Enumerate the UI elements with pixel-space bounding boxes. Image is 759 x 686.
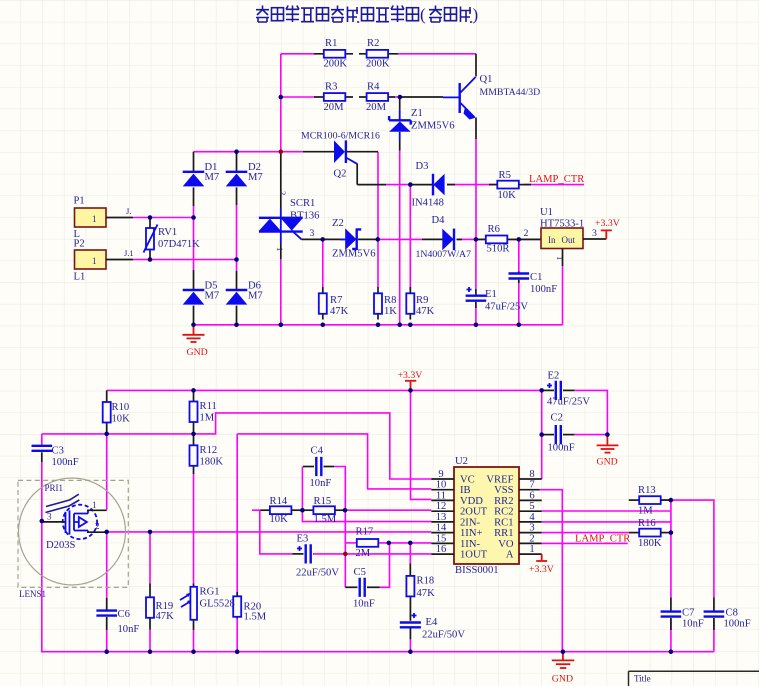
svg-text:180K: 180K [200, 457, 224, 468]
svg-text:2IN-: 2IN- [460, 517, 480, 528]
svg-text:J.: J. [126, 206, 131, 216]
svg-text:R18: R18 [417, 576, 435, 587]
svg-text:A: A [506, 550, 514, 561]
svg-text:MCR100-6/MCR16: MCR100-6/MCR16 [301, 131, 380, 142]
svg-text:C6: C6 [118, 609, 130, 620]
svg-text:1: 1 [529, 544, 534, 555]
svg-text:J.1: J.1 [124, 248, 134, 258]
svg-text:BISS0001: BISS0001 [455, 565, 499, 576]
svg-text:IN4148: IN4148 [412, 198, 444, 209]
svg-text:E4: E4 [426, 617, 438, 628]
svg-text:22uF/50V: 22uF/50V [422, 630, 465, 641]
svg-text:R10: R10 [112, 402, 130, 413]
svg-text:RR1: RR1 [494, 528, 513, 539]
svg-text:D3: D3 [416, 161, 429, 172]
svg-text:2OUT: 2OUT [460, 507, 488, 518]
svg-text:RC1: RC1 [494, 517, 513, 528]
svg-text:10K: 10K [112, 414, 131, 425]
svg-text:1M: 1M [200, 413, 215, 424]
svg-text:LAMP_CTR: LAMP_CTR [529, 174, 585, 185]
svg-text:VSS: VSS [494, 485, 514, 496]
svg-text:13: 13 [436, 512, 447, 523]
svg-text:D203S: D203S [46, 540, 76, 551]
svg-text:D4: D4 [432, 215, 446, 226]
svg-text:C8: C8 [726, 608, 738, 619]
svg-text:VDD: VDD [460, 496, 483, 507]
svg-text:1OUT: 1OUT [460, 550, 488, 561]
svg-text:M7: M7 [205, 291, 220, 302]
svg-text:47K: 47K [417, 588, 436, 599]
svg-text:47K: 47K [330, 306, 349, 317]
svg-text:200K: 200K [324, 59, 348, 70]
svg-text:RR2: RR2 [494, 496, 513, 507]
svg-text:20M: 20M [324, 102, 345, 113]
svg-text:1: 1 [92, 214, 97, 224]
svg-text:Q2: Q2 [334, 169, 347, 180]
svg-text:7: 7 [529, 480, 534, 491]
svg-text:ZMM5V6: ZMM5V6 [411, 121, 455, 132]
svg-text:14: 14 [436, 523, 447, 534]
svg-text:16: 16 [436, 544, 447, 555]
svg-text:R5: R5 [499, 170, 511, 181]
svg-text:100nF: 100nF [52, 457, 79, 468]
svg-text:GND: GND [552, 674, 573, 685]
svg-text:100nF: 100nF [548, 443, 575, 454]
svg-text:P2: P2 [74, 239, 85, 250]
svg-text:47uF/25V: 47uF/25V [485, 302, 528, 313]
svg-text:1IN-: 1IN- [460, 539, 480, 550]
svg-text:1K: 1K [384, 306, 397, 317]
svg-text:VO: VO [498, 539, 514, 550]
svg-text:BT136: BT136 [290, 211, 319, 222]
svg-text:180K: 180K [638, 538, 662, 549]
svg-text:LENS1: LENS1 [19, 589, 46, 599]
svg-text:2: 2 [529, 533, 534, 544]
svg-text:+3.3V: +3.3V [529, 564, 554, 575]
svg-text:1: 1 [275, 247, 285, 251]
svg-text:R2: R2 [367, 38, 379, 49]
svg-text:3: 3 [310, 228, 315, 239]
svg-text:1: 1 [92, 256, 97, 266]
svg-text:R8: R8 [384, 295, 396, 306]
svg-text:10nF: 10nF [353, 599, 375, 610]
svg-text:SCR1: SCR1 [290, 198, 315, 209]
svg-text:GND: GND [597, 457, 618, 468]
svg-text:22uF/50V: 22uF/50V [296, 568, 339, 579]
svg-text:In: In [548, 235, 556, 245]
svg-text:+3.3V: +3.3V [398, 370, 423, 381]
svg-text:1: 1 [555, 256, 565, 260]
svg-text:R16: R16 [638, 518, 656, 529]
svg-text:6: 6 [529, 490, 534, 501]
svg-text:100nF: 100nF [530, 284, 557, 295]
svg-text:R17: R17 [356, 527, 374, 538]
svg-text:10K: 10K [270, 514, 289, 525]
svg-text:M7: M7 [205, 172, 220, 183]
svg-text:R1: R1 [325, 38, 337, 49]
svg-text:R11: R11 [200, 401, 217, 412]
svg-text:): ) [473, 5, 479, 24]
svg-text:Q1: Q1 [480, 74, 493, 85]
svg-text:11: 11 [436, 490, 446, 501]
svg-text:U2: U2 [455, 456, 468, 467]
svg-text:LAMP_CTR: LAMP_CTR [575, 534, 631, 545]
svg-text:10K: 10K [498, 190, 517, 201]
svg-text:Out: Out [562, 235, 576, 245]
svg-text:8: 8 [529, 469, 534, 480]
svg-text:20M: 20M [366, 102, 387, 113]
svg-text:3: 3 [529, 523, 534, 534]
svg-text:2: 2 [278, 191, 288, 195]
svg-text:200K: 200K [366, 59, 390, 70]
svg-text:2: 2 [524, 228, 529, 239]
svg-text:RG1: RG1 [200, 587, 220, 598]
svg-text:Title: Title [634, 674, 651, 684]
svg-text:2M: 2M [356, 548, 371, 559]
svg-text:Z1: Z1 [411, 108, 423, 119]
svg-text:E1: E1 [485, 289, 497, 300]
svg-text:C2: C2 [551, 413, 563, 424]
svg-text:1.5M: 1.5M [314, 514, 337, 525]
svg-text:1N4007W/A7: 1N4007W/A7 [416, 249, 472, 260]
svg-text:10nF: 10nF [682, 619, 704, 630]
svg-text:3: 3 [592, 228, 597, 239]
svg-text:C4: C4 [311, 446, 324, 457]
svg-text:9: 9 [438, 469, 443, 480]
svg-text:C3: C3 [52, 446, 64, 457]
svg-text:RV1: RV1 [158, 227, 177, 238]
svg-text:+3.3V: +3.3V [595, 218, 620, 229]
svg-text:MMBTA44/3D: MMBTA44/3D [480, 87, 541, 98]
svg-text:R4: R4 [367, 82, 380, 93]
svg-text:HT7533-1: HT7533-1 [540, 219, 584, 230]
svg-text:100nF: 100nF [724, 619, 751, 630]
svg-text:10nF: 10nF [118, 624, 140, 635]
svg-text:R6: R6 [488, 224, 500, 235]
svg-text:47K: 47K [416, 306, 435, 317]
svg-text:1M: 1M [638, 506, 653, 517]
svg-text:510R: 510R [487, 244, 511, 255]
svg-text:1IN+: 1IN+ [460, 528, 482, 539]
svg-text:IB: IB [460, 485, 471, 496]
svg-text:R13: R13 [638, 485, 656, 496]
svg-text:M7: M7 [248, 291, 263, 302]
svg-text:R15: R15 [314, 496, 332, 507]
svg-text:47uF/25V: 47uF/25V [547, 397, 590, 408]
svg-text:5: 5 [529, 501, 534, 512]
svg-text:1.5M: 1.5M [244, 612, 267, 623]
svg-text:M7: M7 [248, 172, 263, 183]
svg-text:2: 2 [95, 521, 100, 531]
svg-text:RC2: RC2 [494, 507, 513, 518]
svg-text:GL5528: GL5528 [200, 599, 235, 610]
svg-text:E2: E2 [548, 371, 560, 382]
svg-text:VREF: VREF [486, 475, 513, 486]
svg-text:VC: VC [460, 475, 475, 486]
svg-text:R9: R9 [416, 295, 428, 306]
svg-text:U1: U1 [540, 207, 553, 218]
svg-text:R7: R7 [330, 295, 342, 306]
svg-text:10nF: 10nF [310, 478, 332, 489]
svg-text:C5: C5 [354, 567, 366, 578]
svg-text:PRI1: PRI1 [45, 483, 64, 493]
svg-text:47K: 47K [156, 611, 175, 622]
svg-text:C1: C1 [530, 272, 542, 283]
svg-text:Z2: Z2 [332, 218, 344, 229]
svg-text:3: 3 [47, 512, 52, 522]
svg-text:1: 1 [92, 500, 97, 510]
svg-text:07D471K: 07D471K [158, 239, 200, 250]
svg-text:(: ( [420, 5, 426, 24]
svg-text:R14: R14 [270, 496, 288, 507]
svg-text:10: 10 [436, 480, 447, 491]
svg-text:GND: GND [187, 347, 208, 358]
svg-text:4: 4 [529, 512, 535, 523]
svg-text:E3: E3 [297, 534, 309, 545]
svg-text:R12: R12 [200, 445, 218, 456]
svg-text:ZMM5V6: ZMM5V6 [332, 249, 376, 260]
svg-text:12: 12 [436, 501, 447, 512]
svg-text:L1: L1 [74, 272, 86, 283]
svg-text:P1: P1 [74, 196, 85, 207]
svg-text:R3: R3 [325, 82, 337, 93]
svg-text:C7: C7 [682, 608, 694, 619]
svg-text:15: 15 [436, 533, 447, 544]
